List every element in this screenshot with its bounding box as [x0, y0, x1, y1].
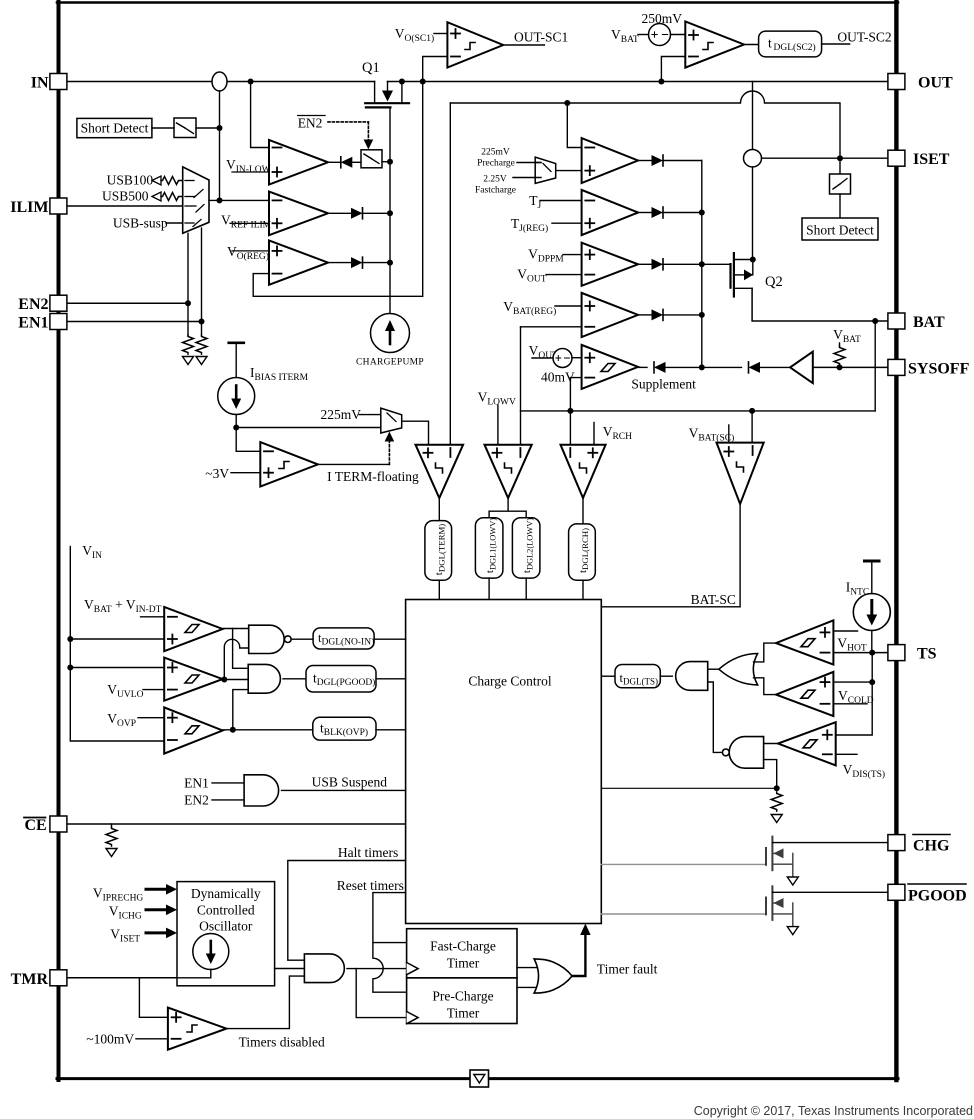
- wire OR to AND (ts): [708, 668, 719, 670]
- svg-text:VOVP: VOVP: [107, 711, 136, 729]
- svg-text:BAT: BAT: [913, 314, 945, 331]
- comparator bank 2 (thermal TJ): [582, 190, 639, 235]
- wire ~3V stub: [231, 472, 260, 474]
- resistor VBAT to SYSOFF: [834, 343, 845, 365]
- current sense ellipse on IN rail: [212, 72, 227, 91]
- wire OUT vertical net down to Q2 drain: [752, 82, 754, 260]
- wire VIN to UVLO comparator plus: [70, 667, 164, 669]
- label pin CE with overline: [24, 817, 47, 834]
- comparator VREF-ILIM: [269, 192, 328, 236]
- wire AND to tDGL(PGOOD): [283, 678, 306, 680]
- svg-text:~3V: ~3V: [205, 466, 229, 481]
- USB500 resistor: [102, 188, 183, 203]
- wire tBLK(OVP) to charge control: [376, 729, 406, 731]
- svg-text:OUT-SC2: OUT-SC2: [837, 30, 891, 45]
- wire UVLO output to AND input 2: [223, 679, 249, 681]
- label pin CHG with overline: [913, 835, 950, 855]
- wire tDGL(TS) to AND gate (ts): [660, 675, 672, 677]
- node OUT rail dot at 422.7: [420, 79, 426, 85]
- svg-text:Q2: Q2: [765, 274, 783, 290]
- svg-text:~100mV: ~100mV: [86, 1032, 134, 1047]
- svg-text:EN1: EN1: [18, 315, 48, 332]
- wire NO-IN comp output to NAND input 1: [223, 628, 249, 630]
- transistor Q2 battery FET: [731, 253, 753, 296]
- wire tDGL(PGOOD) to charge control: [376, 678, 406, 680]
- wire TERM comp to delay box: [438, 498, 440, 521]
- wire DCO circle to TMR rail: [177, 970, 211, 978]
- wire short detect to switch: [152, 127, 174, 129]
- comparator OVP: [164, 707, 222, 753]
- thermal pad pin at bottom: [470, 1070, 489, 1087]
- label EN2 overline (dashed control): [298, 115, 325, 130]
- pin EN1: [50, 314, 67, 330]
- wire NO-IN branch down to AND input 1: [233, 629, 249, 669]
- svg-text:EN2: EN2: [184, 793, 209, 808]
- charge pump current source: [371, 314, 410, 353]
- delay block tDGL(TS): [615, 665, 660, 688]
- wire OUT-SC1 minus to OUT rail: [423, 57, 448, 82]
- wire RCH comp to delay box: [582, 498, 584, 524]
- node EN1 junction dot: [199, 319, 205, 325]
- pin SYSOFF: [888, 359, 905, 375]
- diode supplement B (points left): [702, 362, 790, 373]
- wire delay boxes down to charge control: [439, 578, 583, 599]
- resistor pulldown EN1 path: [196, 335, 207, 354]
- comparator bank 4 (battery regulation): [582, 293, 639, 337]
- node OUT rail dot at 661.4: [658, 79, 664, 85]
- svg-text:Reset timers: Reset timers: [337, 878, 404, 893]
- wire 225mV stub to mux: [359, 414, 381, 416]
- node gate bus junction dot at 213.3: [387, 210, 393, 216]
- svg-text:Copyright © 2017, Texas Instru: Copyright © 2017, Texas Instruments Inco…: [694, 1104, 973, 1118]
- diode at VIN-LOW output (points left): [328, 157, 361, 168]
- wire EN2 dashed control with arrow into switch: [328, 122, 368, 141]
- diode at VREF-ILIM output: [328, 208, 390, 219]
- comparator VIN-LOW: [269, 140, 328, 185]
- wire Halt timers from charge control to clock AND: [288, 861, 406, 961]
- delay block tDGL1(LOWV): [475, 518, 503, 578]
- pin CE: [50, 816, 67, 832]
- svg-text:TS: TS: [917, 646, 937, 663]
- comparator down TERM: [416, 445, 464, 498]
- wire CE rail: [67, 823, 406, 825]
- svg-text:CE: CE: [25, 817, 47, 834]
- svg-text:DGL(SC2): DGL(SC2): [774, 42, 816, 53]
- wire OVP output to tBLK(OVP): [223, 729, 313, 731]
- wire VOUT stub: [546, 274, 582, 276]
- wire BAT-SC output to charge control: [601, 504, 740, 607]
- wire VLOWV stub down to LOWV plus: [497, 405, 499, 445]
- wire precharge input: [517, 162, 541, 164]
- wire supplement minus to battery sense rail: [570, 378, 581, 411]
- resistor ts pulldown: [771, 792, 782, 811]
- svg-text:VBAT + VIN-DT: VBAT + VIN-DT: [84, 597, 162, 615]
- wire EN2 rail: [67, 302, 188, 304]
- svg-text:Timers disabled: Timers disabled: [239, 1035, 325, 1050]
- wire gray gate drive CHG: [601, 863, 766, 865]
- wire Q2 source to BAT pin: [752, 288, 889, 321]
- current sense ellipse on ISET branch: [744, 150, 762, 167]
- wire IN junction down to VIN-LOW minus: [251, 82, 269, 148]
- wire VBAT(REG) stub: [555, 305, 582, 307]
- wire DCO output to clock AND: [275, 968, 305, 970]
- pin IN: [50, 74, 67, 90]
- wire battery sense down to LOWV right input: [520, 327, 522, 445]
- wire VBAT to source circle: [638, 34, 649, 36]
- svg-text:VDPPM: VDPPM: [528, 247, 564, 265]
- wire VBAT(REG) minus to battery sense vertical: [521, 326, 582, 328]
- svg-text:225mV: 225mV: [321, 407, 362, 422]
- wire USB-susp stub: [166, 222, 183, 224]
- delay block tDGL(TERM): [425, 521, 452, 581]
- svg-text:VICHG: VICHG: [109, 904, 142, 922]
- mux internal selector strokes: [185, 181, 204, 227]
- delay block tDGL(NO-IN): [313, 628, 374, 649]
- wire HOT comp output to OR input 1: [754, 643, 777, 662]
- wire COLD plus to TS net: [833, 681, 872, 683]
- gate AND ts (mirrored output left): [676, 662, 708, 691]
- node Q2 drain dot: [750, 257, 756, 263]
- comparator UVLO: [164, 658, 222, 701]
- wire OVP output junction up to AND input 3: [233, 690, 248, 730]
- diode supplement A (points left): [638, 362, 702, 373]
- wire switch to gate bus: [382, 161, 390, 163]
- comparator down LOWV: [485, 445, 532, 498]
- Charge Control block: [406, 600, 602, 924]
- wire INTC top stub to border: [871, 561, 873, 594]
- svg-text:Timer: Timer: [447, 956, 480, 971]
- svg-text:BAT-SC: BAT-SC: [691, 592, 736, 607]
- Fast-Charge Timer block: [407, 929, 517, 978]
- wire mux select line 1 down: [187, 233, 189, 335]
- PGOOD body arrow: [773, 898, 783, 908]
- transistor PGOOD open-drain FET: [766, 886, 889, 926]
- svg-text:Q1: Q1: [362, 60, 380, 76]
- ILIM input mux trapezoid: [183, 167, 209, 233]
- wire OUT-SC1 output: [503, 44, 544, 46]
- wire USB Suspend to charge control: [282, 789, 406, 791]
- wire timer fault arrow into charge control: [572, 924, 591, 977]
- wire battery sense rail: [521, 410, 876, 412]
- wire VIN-LOW plus stub: [232, 171, 269, 173]
- wire switch to junction: [196, 127, 220, 129]
- comparator timers-disabled 100mV: [168, 1008, 227, 1050]
- svg-text:VBAT: VBAT: [611, 27, 639, 45]
- comparator COLD (points left): [776, 672, 833, 716]
- svg-text:Short Detect: Short Detect: [81, 121, 149, 136]
- svg-text:Fastcharge: Fastcharge: [475, 186, 516, 196]
- wire tDGL(NO-IN) to charge control: [374, 638, 406, 640]
- node gate bus junction dot at 161.7: [387, 159, 393, 165]
- node junction dot mux output line: [217, 197, 223, 203]
- wire switch 2 to Short Detect 2: [839, 194, 841, 218]
- node ISET line junction dot: [837, 155, 843, 161]
- wire ITERM mux output to TERM comparator: [402, 421, 429, 445]
- gate NAND ts (mirrored output left): [722, 737, 763, 769]
- comparator ITERM-floating detect: [260, 442, 318, 487]
- node IN-sense junction dot: [248, 79, 254, 85]
- wire pre timer output to OR: [517, 986, 538, 988]
- node TS net dot at COLD plus: [869, 679, 875, 685]
- node dot on ISET net feeding comparator bank minus: [564, 100, 570, 106]
- wire VO(REG) plus stub: [232, 250, 269, 252]
- ground EN2: [183, 357, 194, 365]
- DCO block: [177, 882, 275, 986]
- labels 225mV Precharge / 2.25V Fastcharge: [475, 148, 516, 196]
- svg-text:USB100: USB100: [107, 172, 154, 187]
- comparator down BAT(SC): [717, 443, 764, 504]
- wire VBAT+VIN-DT stub: [141, 616, 165, 618]
- wire ITERM comparator output: [318, 463, 390, 465]
- pin TMR: [50, 970, 67, 986]
- wire INTC to TS junction: [871, 631, 873, 653]
- wire ISET net down to comparator 1 minus: [567, 103, 581, 148]
- wire VOUT label to circle: [532, 357, 553, 359]
- wire EN1 rail: [67, 321, 202, 323]
- wire sense rail to BAT(SC) right input: [751, 411, 753, 443]
- node sense rail dot at 752.1: [749, 408, 755, 414]
- svg-text:I TERM-floating: I TERM-floating: [327, 469, 419, 484]
- gate AND usb-suspend: [244, 775, 279, 806]
- node OVP output dot: [230, 727, 236, 733]
- switch symbol box (input short detect): [174, 118, 196, 138]
- arrow VIPRECHG into DCO: [146, 884, 177, 895]
- svg-text:Precharge: Precharge: [477, 159, 515, 169]
- wire supply to IBIAS source: [235, 343, 237, 378]
- wire from ellipse down to short-detect switch line: [219, 91, 221, 200]
- wire mux out to comparator 1 plus: [556, 170, 582, 172]
- wire IN rail from pin IN to ellipse sense: [67, 81, 375, 83]
- label pin PGOOD with overline: [908, 884, 967, 904]
- comparator DIS (points left): [778, 722, 836, 765]
- svg-text:t: t: [768, 36, 772, 51]
- wire clock branch down to pre timer clock: [356, 969, 406, 1018]
- svg-text:USB-susp: USB-susp: [113, 216, 168, 231]
- comparator down RCH: [561, 445, 606, 498]
- svg-text:TJ(REG): TJ(REG): [511, 216, 548, 234]
- svg-text:EN2: EN2: [298, 115, 323, 130]
- svg-text:Oscillator: Oscillator: [199, 919, 253, 934]
- wire VO(REG) feedback from OUT rail: [253, 82, 423, 297]
- svg-text:VO(REG): VO(REG): [227, 244, 269, 262]
- svg-text:VUVLO: VUVLO: [107, 682, 143, 700]
- wire EN2 stub: [212, 799, 244, 801]
- transistor Q1 pass FET: [365, 82, 409, 108]
- wire ISET sense net with hop over OUT vertical: [450, 91, 840, 158]
- gate AND clock gating: [304, 954, 344, 983]
- wire VIN vertical: [70, 547, 164, 741]
- svg-text:VBAT: VBAT: [833, 327, 861, 345]
- svg-text:INTC: INTC: [846, 580, 870, 598]
- svg-text:Supplement: Supplement: [631, 377, 696, 392]
- svg-text:VBAT(REG): VBAT(REG): [503, 299, 556, 317]
- node junction dot switch line: [217, 125, 223, 131]
- comparator bank 3 (DPPM): [582, 243, 639, 286]
- svg-text:Fast-Charge: Fast-Charge: [430, 939, 496, 954]
- delay block tDGL(PGOOD): [306, 666, 376, 693]
- node EN2 junction dot: [185, 300, 191, 306]
- gate OR ts (mirrored output left): [719, 654, 758, 685]
- pin ISET: [888, 150, 905, 166]
- ground PGOOD: [787, 927, 798, 935]
- svg-text:TJ: TJ: [529, 193, 541, 211]
- svg-text:225mV: 225mV: [481, 148, 510, 158]
- wire charge control to tDGL(TS): [601, 675, 615, 677]
- arrow VICHG into DCO: [146, 905, 177, 916]
- ground CHG: [787, 877, 798, 885]
- svg-text:TMR: TMR: [11, 971, 49, 988]
- wire charge control to ts pulldown junction: [601, 787, 776, 789]
- comparator NO-IN detect: [164, 607, 222, 651]
- USB100 resistor: [107, 172, 183, 187]
- svg-text:VIN: VIN: [82, 543, 102, 561]
- ITERM mux selector stroke: [387, 413, 396, 422]
- pin ILIM: [50, 198, 67, 214]
- gate NAND no-input detect: [249, 625, 291, 653]
- diode D3: [638, 259, 702, 270]
- comparator OUT-SC2: [685, 22, 744, 68]
- svg-text:OUT-SC1: OUT-SC1: [514, 30, 568, 45]
- svg-text:ISET: ISET: [913, 151, 950, 168]
- ground CE pulldown: [106, 849, 117, 857]
- svg-text:ILIM: ILIM: [10, 199, 48, 216]
- wire VRCH stub: [593, 423, 595, 445]
- node TS junction dot: [869, 650, 875, 656]
- comparator bank 1 (charge current): [582, 138, 639, 183]
- wire bus to Q2 gate: [702, 263, 731, 265]
- wire TJ(REG) stub: [552, 222, 582, 224]
- wire VREF-ILIM plus stub: [230, 222, 269, 224]
- node gate bus junction dot at 262.6: [387, 260, 393, 266]
- wire gray gate drive PGOOD: [601, 913, 766, 915]
- supply bar for IBIAS: [229, 341, 244, 344]
- current source IBIAS ITERM: [218, 378, 255, 415]
- svg-text:Timer fault: Timer fault: [597, 962, 658, 977]
- gate OR timer fault: [534, 959, 572, 993]
- DCO current source circle: [193, 934, 229, 970]
- svg-text:VLOWV: VLOWV: [478, 390, 516, 408]
- wire OUT-SC2 minus to OUT rail: [661, 57, 685, 82]
- buffer triangle to SYSOFF (points left): [790, 352, 813, 383]
- delay block tDGL(SC2): [759, 31, 822, 57]
- node IBIAS junction dot: [233, 425, 239, 431]
- wire UVLO output hook over to NAND input 2: [224, 639, 248, 679]
- pin TS: [888, 645, 905, 661]
- wire VBAT(SC) stub: [728, 425, 730, 443]
- wire ellipse to ISET pin: [762, 157, 890, 159]
- wire VDPPM stub: [563, 254, 582, 256]
- diode D2: [638, 207, 702, 218]
- wire 100mV stub: [136, 1038, 168, 1040]
- wire TMR branch down to 100mV comparator plus: [139, 978, 168, 1018]
- wire gate bus vertical Q1 gate to charge pump: [389, 107, 391, 313]
- wire NAND output up to AND input 2: [708, 682, 723, 752]
- svg-text:CHG: CHG: [913, 838, 950, 855]
- svg-text:Dynamically: Dynamically: [191, 886, 261, 901]
- svg-text:OUT: OUT: [918, 75, 953, 92]
- svg-text:Short Detect: Short Detect: [806, 223, 874, 238]
- wire circle to supplement plus: [572, 357, 582, 359]
- svg-text:USB500: USB500: [102, 188, 149, 203]
- wire TS net down to COLD plus and DIS plus: [836, 653, 873, 735]
- comparator HOT (points left): [776, 620, 833, 664]
- delay block tBLK(OVP): [313, 717, 376, 740]
- svg-text:Timer: Timer: [447, 1006, 480, 1021]
- Short Detect block (ISET): [802, 218, 878, 240]
- wire DIS output to NAND input 1: [764, 743, 778, 745]
- svg-text:IN: IN: [31, 75, 49, 92]
- Pre timer clock triangle marker: [407, 1012, 419, 1024]
- svg-text:VIPRECHG: VIPRECHG: [93, 886, 144, 904]
- svg-text:Controlled: Controlled: [197, 903, 255, 918]
- node OUT rail dot at Q1 source: [399, 79, 405, 85]
- svg-text:VBAT(SC): VBAT(SC): [689, 426, 735, 444]
- pin PGOOD: [888, 884, 905, 900]
- Q1 body diode arrow: [382, 91, 393, 102]
- wire source circle to OUT-SC2 plus: [671, 34, 686, 36]
- wire IBIAS down to junction: [235, 415, 237, 452]
- wire IBIAS junction down to comparator minus: [236, 450, 260, 452]
- svg-text:VHOT: VHOT: [837, 636, 866, 654]
- node ts pulldown junction dot: [774, 785, 780, 791]
- svg-text:Charge Control: Charge Control: [468, 674, 552, 689]
- current source INTC: [853, 594, 890, 631]
- diode D4: [638, 309, 702, 320]
- wire HOT plus stub: [833, 630, 857, 632]
- wire fastcharge input: [513, 177, 541, 179]
- voltage source circle 40mV offset: [553, 349, 572, 368]
- wire BAT down to battery sense rail: [874, 321, 876, 411]
- voltage source circle 250mV: [649, 24, 671, 46]
- Fast timer clock triangle marker: [407, 963, 419, 975]
- svg-text:SYSOFF: SYSOFF: [908, 360, 970, 377]
- wire OUT-SC2 output to delay box: [744, 44, 759, 46]
- pin OUT: [888, 74, 905, 90]
- ground ts pulldown: [771, 815, 782, 823]
- wire clock AND output to fast timer clock: [347, 968, 407, 970]
- wire Reset timers to fast timer: [373, 893, 407, 943]
- svg-text:VO(SC1): VO(SC1): [395, 26, 434, 44]
- wire VOVP stub: [138, 717, 164, 719]
- svg-text:VOUT: VOUT: [517, 267, 546, 285]
- wire ILIM rail pin to mux: [67, 205, 183, 207]
- svg-text:VRCH: VRCH: [603, 424, 632, 442]
- node BAT junction dot: [872, 318, 878, 324]
- gate AND power-good: [248, 664, 280, 693]
- comparator OUT-SC1: [447, 22, 503, 67]
- svg-text:USB Suspend: USB Suspend: [312, 775, 388, 790]
- ground EN1: [196, 357, 207, 365]
- switch box after VIN-LOW diode: [361, 150, 382, 168]
- node sense rail dot at 570.4: [567, 408, 573, 414]
- node UVLO output dot: [221, 677, 227, 683]
- wire DIS minus stub: [836, 753, 857, 755]
- node VIN dot comp1: [67, 636, 73, 642]
- pin CHG: [888, 835, 905, 851]
- wire OUT rail: [388, 81, 890, 83]
- wire fast timer output to OR: [517, 967, 538, 969]
- svg-text:VISET: VISET: [110, 927, 140, 945]
- svg-text:Pre-Charge: Pre-Charge: [432, 989, 493, 1004]
- wire COLD comp output to OR input 2: [754, 678, 777, 695]
- Short Detect block (input): [77, 118, 152, 137]
- wire dotted control ITERM-floating with arrow: [388, 441, 390, 464]
- svg-text:PGOOD: PGOOD: [908, 887, 967, 904]
- wire COLD minus stub: [833, 703, 867, 705]
- wire EN1 stub: [212, 782, 244, 784]
- delay block tDGL(RCH): [569, 524, 596, 580]
- svg-text:IBIAS ITERM: IBIAS ITERM: [250, 365, 309, 383]
